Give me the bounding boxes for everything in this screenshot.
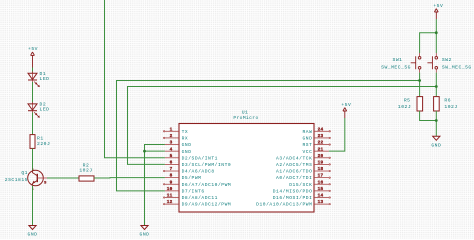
power +5V (left) [28,46,38,67]
svg-text:R1: R1 [37,136,44,142]
svg-text:D5/PWM: D5/PWM [182,175,202,181]
wire R1 to Q1 collector [32,148,34,171]
svg-text:GND: GND [182,142,192,148]
power +5V (top right) [433,3,443,19]
svg-text:2: 2 [170,134,173,139]
svg-text:D15/SCK: D15/SCK [289,182,312,188]
svg-text:+5V: +5V [433,3,443,9]
svg-text:7: 7 [170,167,173,172]
svg-text:ProMicro: ProMicro [233,115,258,121]
switch SW1 SW_MEC_5G [381,53,421,73]
svg-text:20: 20 [318,154,324,159]
svg-text:+5V: +5V [28,46,38,52]
resistor R2 102J [79,163,94,181]
pin 8 D5/PWM (left) [165,174,202,182]
svg-text:14: 14 [318,194,324,199]
wire SW2 net to pin 6 D3/SCL [128,87,437,165]
svg-text:LED: LED [40,107,50,113]
wire +5V down to SW2 [435,19,437,53]
pin 2 RX (left) [163,134,188,142]
pin 7 D4/A6/ADC8 (left) [163,167,214,175]
IC U1 ProMicro body [179,110,314,212]
wire R6 bottom to GND [435,111,437,136]
ground (middle, IC pins 3-4) [140,226,150,238]
wire R5 bottom to R6 net [420,111,437,121]
pin 22 RST (right) [302,141,330,149]
svg-text:D3/SCL/PWM/INT0: D3/SCL/PWM/INT0 [182,162,232,168]
switch SW2 SW_MEC_5G [427,53,471,73]
svg-text:22: 22 [318,141,324,146]
wire SW1 net to pin 10 D7/INT6 [117,81,420,191]
svg-text:SW_MEC_5G: SW_MEC_5G [381,64,411,70]
junction R5/R6 GND net [435,119,438,122]
svg-text:SW_MEC_5G: SW_MEC_5G [442,64,472,70]
svg-text:23: 23 [318,134,324,139]
pin 5 D2/SDA/INT1 (left) [165,154,218,162]
pin 17 A0/ADC7/TDI (right) [276,174,330,182]
svg-text:102J: 102J [79,168,92,174]
pin 15 D14/MISO/PDO (right) [273,187,331,195]
svg-text:GND: GND [302,136,312,142]
pin 4 GND (left) [165,147,192,155]
pin 19 A2/ADC5/TMS (right) [276,161,330,169]
svg-text:GND: GND [28,232,38,238]
ground (left, Q1 emitter) [28,226,38,238]
svg-text:TX: TX [182,129,189,135]
svg-text:D14/MISO/PDO: D14/MISO/PDO [273,188,313,194]
pin 18 A1/ADC6/TDO (right) [276,167,330,175]
svg-text:4: 4 [170,147,173,152]
svg-text:D6/A7/ADC10/PWM: D6/A7/ADC10/PWM [182,182,232,188]
junction pins3-4 GND [143,150,146,153]
svg-text:15: 15 [318,187,324,192]
pin 3 GND (left) [165,141,192,149]
pin 16 D15/SCK (right) [289,180,330,188]
wire D2 to R1 [32,113,34,135]
pin 23 GND (right) [302,134,330,142]
wire branch to SW1 [420,33,437,53]
svg-text:17: 17 [318,174,324,179]
svg-text:16: 16 [318,180,324,185]
svg-text:10: 10 [167,187,173,192]
svg-text:D16/MOSI/PDI: D16/MOSI/PDI [273,195,313,201]
pin 9 D6/A7/ADC10/PWM (left) [163,180,231,188]
svg-text:U1: U1 [242,110,249,116]
svg-text:21: 21 [318,147,324,152]
pin 12 D9/A9/ADC12/PWM (left) [163,200,231,208]
pin 10 D7/INT6 (left) [165,187,205,195]
svg-text:2SC1815: 2SC1815 [5,177,28,183]
svg-text:D2/SDA/INT1: D2/SDA/INT1 [182,155,218,161]
pin 24 RAW (right) [302,127,330,135]
junction SW2 net [435,85,438,88]
resistor R6 102J [434,97,458,111]
svg-text:A1/ADC6/TDO: A1/ADC6/TDO [276,169,312,175]
svg-text:D7/INT6: D7/INT6 [182,188,205,194]
svg-text:24: 24 [318,127,324,132]
resistor R5 102J [398,97,423,111]
svg-text:D10/A10/ADC13/PWM: D10/A10/ADC13/PWM [256,202,312,208]
svg-text:D8/A8/ADC11: D8/A8/ADC11 [182,195,218,201]
svg-text:11: 11 [167,194,173,199]
svg-text:GND: GND [140,232,150,238]
wire Q1 base to R2 [47,177,79,179]
svg-text:A2/ADC5/TMS: A2/ADC5/TMS [276,162,312,168]
pin 21 VCC (right) [302,147,328,155]
svg-text:GND: GND [182,149,192,155]
transistor Q1 2SC1815 [5,169,47,192]
svg-text:12: 12 [167,200,173,205]
svg-text:A3/ADC4/TCK: A3/ADC4/TCK [276,155,312,161]
resistor R1 220J [30,135,50,149]
svg-text:LED: LED [40,76,50,82]
pin 6 D3/SCL/PWM/INT0 (left) [165,161,231,169]
svg-text:R5: R5 [404,98,411,104]
svg-text:R6: R6 [444,98,451,104]
svg-text:9: 9 [170,180,173,185]
svg-text:8: 8 [170,174,173,179]
svg-text:3: 3 [44,181,47,185]
svg-text:1: 1 [170,127,173,132]
pin 11 D8/A8/ADC11 (left) [163,194,218,202]
svg-text:RAW: RAW [302,129,312,135]
wire R2 to pin 8 D5/PWM [94,177,165,179]
svg-text:VCC: VCC [302,149,312,155]
wire net to pin 5 D2/SDA (vertical from top) [105,0,165,158]
pin 14 D16/MOSI/PDI (right) [273,194,331,202]
svg-text:RX: RX [182,136,189,142]
svg-text:18: 18 [318,167,324,172]
svg-text:A0/ADC7/TDI: A0/ADC7/TDI [276,175,312,181]
wire +5V to pin 21 VCC [329,118,345,151]
svg-text:102J: 102J [444,104,457,110]
wire Q1 emitter to GND [32,186,34,226]
wire D1 to D2 [32,82,34,104]
svg-text:19: 19 [318,161,324,166]
pin 13 D10/A10/ADC13/PWM (right) [256,200,330,208]
svg-text:SW1: SW1 [393,57,403,63]
svg-text:Q1: Q1 [21,170,28,176]
svg-text:6: 6 [170,161,173,166]
svg-text:5: 5 [170,154,173,159]
junction +5V rail [435,31,438,34]
junction SW1 net [418,79,421,82]
pin 1 TX (left) [163,127,188,135]
svg-text:GND: GND [431,143,441,149]
power +5V (middle, VCC) [341,102,351,118]
ground (right, switches pull-down) [431,136,441,148]
svg-text:SW2: SW2 [442,57,452,63]
wire +5V to D1 [32,68,34,74]
svg-text:RST: RST [302,142,312,148]
svg-text:13: 13 [318,200,324,205]
svg-text:102J: 102J [398,104,411,110]
svg-text:D4/A6/ADC8: D4/A6/ADC8 [182,169,215,175]
LED D1 [28,71,49,87]
wire GND net pins 3,4 [145,145,165,226]
svg-text:D9/A9/ADC12/PWM: D9/A9/ADC12/PWM [182,202,232,208]
svg-text:+5V: +5V [341,102,351,108]
wire SW1 to R5 [419,73,421,97]
svg-text:220J: 220J [37,141,50,147]
svg-text:3: 3 [170,141,173,146]
wire SW2 to R6 [435,73,437,97]
pin 20 A3/ADC4/TCK (right) [276,154,330,162]
LED D2 [28,102,49,118]
